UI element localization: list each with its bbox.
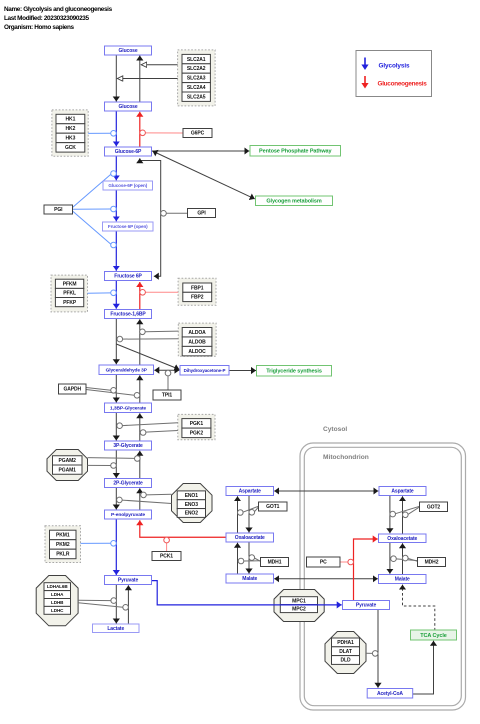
wire SLC2A catalysis lower [117, 78, 177, 80]
svg-text:Glucose: Glucose [118, 48, 137, 54]
svg-text:1,3BP-Glycerate: 1,3BP-Glycerate [110, 405, 146, 411]
svg-text:LDHC: LDHC [51, 608, 64, 613]
enzyme PGI [44, 205, 73, 214]
wire ENO catalysis up [146, 493, 171, 496]
wire cyto Aspartate to Oxaloacetate [248, 496, 250, 533]
wire mito Oxaloacetate to Aspartate [402, 496, 404, 534]
pathway node Triglyceride synthesis [257, 366, 332, 377]
wire GOT2 catalysis b [408, 507, 420, 514]
wire Malate shuttle [274, 578, 378, 580]
wire Acetyl-CoA to TCA Cycle [413, 641, 434, 694]
pathway node Pentose Phosphate Pathway [250, 146, 341, 157]
svg-text:Lactate: Lactate [107, 626, 124, 632]
anchor GOT2 anchor down [390, 511, 396, 517]
wire MDH1 catalysis a [244, 560, 261, 562]
svg-text:PC: PC [320, 560, 327, 566]
svg-text:PKM2: PKM2 [56, 542, 70, 548]
svg-text:PGAM2: PGAM2 [59, 458, 77, 464]
anchor ALDO anchor down [117, 336, 123, 342]
wire PCK1 catalysis [166, 543, 168, 552]
wire ENO catalysis down [122, 500, 171, 503]
node mitochondrial Aspartate [379, 487, 426, 496]
anchor PK anchor [111, 541, 117, 547]
svg-text:SLC2A1: SLC2A1 [187, 57, 206, 63]
group phosphoglycerate kinases [178, 414, 215, 439]
wire PGI catalysis 1 [73, 174, 111, 207]
anchor G6PC anchor [140, 130, 146, 136]
complex MPC complex [274, 590, 324, 622]
enzyme PCK1 [152, 552, 181, 561]
svg-text:TCA Cycle: TCA Cycle [420, 633, 446, 639]
group FBP phosphatases [178, 278, 216, 305]
svg-text:Dihydroxyacetone-P: Dihydroxyacetone-P [184, 368, 226, 373]
wire cyto Oxaloacetate to Malate [248, 542, 250, 574]
wire 1,3BP-Glycerate to 3P-Glycerate [115, 413, 117, 441]
svg-text:PGI: PGI [54, 207, 63, 213]
svg-text:ENO2: ENO2 [185, 511, 199, 517]
group phosphofructokinases [51, 275, 88, 312]
anchor GOT2 anchor up [403, 512, 409, 518]
enzyme PC [307, 557, 341, 567]
svg-text:GOT1: GOT1 [266, 504, 280, 510]
svg-text:PKM1: PKM1 [56, 533, 70, 539]
wire Fructose 6P open to Fructose 6P [115, 231, 117, 271]
node Fructose-1,6BP [105, 310, 152, 319]
svg-text:Fructose-1,6BP: Fructose-1,6BP [110, 312, 146, 318]
anchor GAPDH anchor up [134, 393, 140, 399]
svg-text:GCK: GCK [65, 145, 76, 151]
node Acetyl-CoA [367, 689, 413, 699]
anchor HK anchor [111, 131, 117, 137]
wire Glucose to Glucose-6P [115, 111, 117, 146]
node Dihydroxyacetone-P [180, 366, 229, 376]
anchor PDH anchor [372, 651, 378, 657]
wire PFK catalysis [88, 292, 111, 294]
anchor GPI anchor [161, 211, 167, 217]
svg-text:Oxaloacetate: Oxaloacetate [387, 536, 417, 542]
wire GPI shunt Glucose-6P to Fructose 6P [140, 158, 161, 276]
node 3P-Glycerate [105, 441, 152, 450]
wire Pyruvate to mitochondrial Pyruvate [151, 581, 341, 605]
svg-text:Glucose: Glucose [118, 104, 137, 110]
wire Dihydroxyacetone-P to Triglyceride synthesis [229, 370, 256, 372]
wire 2P-Glycerate to 3P-Glycerate [139, 451, 141, 488]
wire Glucose-6P open to Fructose 6P open [115, 190, 117, 221]
node mitochondrial Malate [379, 575, 427, 584]
wire ALDO catalysis up [145, 330, 178, 333]
wire TCA Cycle to Malate (dashed) [403, 585, 435, 631]
wire Glyceraldehyde 3P to Fructose-1,6BP [139, 319, 141, 364]
wire Fructose-1,6BP to Fructose 6P [139, 282, 141, 310]
svg-text:PFKM: PFKM [63, 282, 77, 288]
svg-text:Fructose 6P (open): Fructose 6P (open) [108, 224, 148, 229]
anchor PC anchor [348, 559, 354, 565]
svg-text:PFKP: PFKP [63, 300, 77, 306]
svg-text:PDHA1: PDHA1 [337, 640, 354, 646]
svg-text:LDHA: LDHA [51, 592, 64, 597]
svg-text:Glucose-6P (open): Glucose-6P (open) [108, 183, 147, 188]
svg-text:HK2: HK2 [66, 126, 76, 132]
anchor FBP anchor [140, 290, 146, 296]
svg-text:SLC2A4: SLC2A4 [187, 85, 206, 91]
svg-text:G6PC: G6PC [191, 131, 205, 137]
node Pyruvate [105, 576, 152, 585]
svg-text:SLC2A3: SLC2A3 [187, 76, 206, 82]
wire cyto Oxaloacetate to Aspartate [237, 496, 239, 533]
wire MDH2 catalysis b [408, 558, 418, 561]
svg-text:Glyceraldehyde 3P: Glyceraldehyde 3P [106, 367, 148, 373]
svg-text:DLAT: DLAT [339, 649, 352, 655]
svg-text:ALDOC: ALDOC [188, 349, 206, 355]
group pyruvate kinases [45, 526, 81, 563]
anchor PGK anchor up [140, 430, 146, 436]
node Glucose [105, 102, 152, 111]
wire Oxaloacetate to P-enolpyruvate [140, 520, 226, 537]
svg-text:PGAM1: PGAM1 [59, 467, 77, 473]
complex LDH complex [36, 576, 78, 626]
node 1,3BP-Glycerate [105, 403, 152, 413]
svg-text:Malate: Malate [395, 577, 410, 583]
complex ENO complex [172, 484, 213, 523]
wire 1,3BP-Glycerate to Glyceraldehyde 3P [139, 375, 141, 403]
wire SLC2A catalysis upper [141, 64, 177, 66]
anchor ALDO anchor up [140, 329, 146, 335]
anchor GAPDH anchor down [111, 388, 117, 394]
svg-text:Organism: Homo sapiens: Organism: Homo sapiens [4, 24, 75, 31]
anchor PGK anchor down [117, 423, 123, 429]
anchor PGAM anchor up [135, 456, 141, 462]
enzyme TPI1 [153, 390, 181, 400]
wire HK catalysis [88, 132, 111, 134]
wire 2P-Glycerate to P-enolpyruvate [115, 488, 117, 510]
anchor GOT1 anchor down [249, 510, 255, 516]
svg-text:Aspartate: Aspartate [391, 489, 413, 495]
wire PGI catalysis 2 [73, 208, 111, 210]
enzyme GOT2 [420, 502, 448, 512]
wire mito Pyruvate to Oxaloacetate [354, 539, 378, 601]
node Glucose-6P open [103, 181, 153, 190]
wire PGAM catalysis down [88, 464, 111, 466]
node Glucose-6P [105, 147, 152, 156]
svg-text:Malate: Malate [242, 576, 257, 582]
wire Glyceraldehyde 3P to 1,3BP-Glycerate [115, 375, 117, 403]
wire PGK catalysis down [122, 423, 178, 426]
svg-text:GPI: GPI [197, 211, 206, 217]
svg-text:Fructose 6P: Fructose 6P [114, 274, 142, 280]
wire P-enolpyruvate to Pyruvate [115, 519, 117, 575]
svg-text:PGK2: PGK2 [190, 431, 204, 437]
svg-text:DLD: DLD [341, 658, 351, 664]
wire Fructose-1,6BP to Glyceraldehyde 3P [115, 319, 117, 365]
enzyme GOT1 [259, 502, 288, 511]
anchor MDH2 anchor down [391, 556, 397, 562]
svg-text:FBP1: FBP1 [191, 285, 204, 291]
svg-text:MDH2: MDH2 [425, 560, 439, 566]
svg-text:TPI1: TPI1 [162, 393, 172, 399]
wire Pyruvate to Lactate [115, 585, 117, 624]
node Lactate [93, 624, 140, 633]
wire GOT2 catalysis a [395, 506, 419, 513]
node 2P-Glycerate [105, 479, 152, 488]
svg-text:ALDOA: ALDOA [188, 330, 206, 336]
node Glyceraldehyde 3P [99, 365, 154, 375]
svg-text:P-enolpyruvate: P-enolpyruvate [111, 512, 145, 518]
group SLC2A transporters [178, 50, 216, 106]
anchor ENO anchor down [117, 497, 123, 503]
node Fructose 6P open [103, 222, 154, 231]
wire Glucose transport out [139, 56, 141, 103]
svg-text:HK1: HK1 [66, 117, 76, 123]
svg-text:PGK1: PGK1 [190, 421, 204, 427]
wire G6PC catalysis [145, 132, 183, 134]
wire Fructose-1,6BP branch to Dihydroxyacetone-P [116, 344, 179, 369]
svg-text:SLC2A2: SLC2A2 [187, 66, 206, 72]
wire Glucose transport in [115, 55, 117, 102]
svg-text:HK3: HK3 [66, 136, 76, 142]
wire PGAM catalysis up [88, 457, 135, 460]
wire mito Pyruvate to Acetyl-CoA [377, 610, 379, 688]
wire Glucose-6P to Glycogen metabolism [152, 151, 254, 199]
svg-text:ALDOB: ALDOB [188, 339, 206, 345]
anchor ENO anchor up [141, 492, 147, 498]
wire Glucose-6P to Pentose Phosphate Pathway [151, 150, 249, 152]
svg-text:Aspartate: Aspartate [239, 489, 261, 495]
node cytosolic Aspartate [226, 487, 274, 496]
wire PK catalysis [81, 542, 111, 544]
svg-text:Name: Glycolysis and gluconeog: Name: Glycolysis and gluconeogenesis [4, 6, 113, 13]
wire ALDO catalysis down [123, 338, 179, 340]
wire Aspartate shuttle [274, 490, 378, 492]
node mitochondrial Oxaloacetate [379, 534, 427, 543]
svg-text:SLC2A5: SLC2A5 [187, 94, 206, 100]
compartment Mitochondrion membrane [300, 443, 466, 710]
node cytosolic Malate [226, 574, 274, 583]
wire FBP catalysis [145, 291, 178, 293]
anchor PGI anchor 1 [111, 171, 117, 177]
wire mito Malate to Oxaloacetate [402, 543, 404, 574]
svg-text:Glycolysis: Glycolysis [379, 63, 411, 70]
svg-text:FBP2: FBP2 [191, 295, 204, 301]
enzyme GAPDH [59, 384, 87, 394]
wire 3P-Glycerate to 2P-Glycerate [115, 450, 117, 478]
wire GAPDH catalysis down [86, 388, 111, 391]
node mitochondrial Pyruvate [343, 601, 390, 610]
wire MDH1 catalysis b [254, 558, 260, 561]
svg-text:Pentose Phosphate Pathway: Pentose Phosphate Pathway [259, 149, 332, 155]
wire PGK catalysis up [140, 431, 177, 433]
svg-text:3P-Glycerate: 3P-Glycerate [113, 443, 143, 449]
wire Glucose-6P to Glucose-6P open [115, 156, 117, 180]
anchor MDH2 anchor up [403, 555, 409, 561]
svg-text:MDH1: MDH1 [268, 560, 282, 566]
svg-text:LDHAL6B: LDHAL6B [47, 584, 69, 589]
wire GOT1 catalysis a [243, 506, 259, 512]
pathway node TCA Cycle [411, 630, 457, 640]
anchor PFK anchor [111, 290, 117, 296]
wire Glyceraldehyde 3P / Dihydroxyacetone-P isomerization [154, 369, 179, 371]
svg-text:Glycogen metabolism: Glycogen metabolism [266, 199, 321, 205]
svg-text:Acetyl-CoA: Acetyl-CoA [377, 691, 403, 697]
svg-text:Pyruvate: Pyruvate [118, 578, 139, 584]
svg-text:Triglyceride synthesis: Triglyceride synthesis [266, 369, 322, 375]
svg-text:Mitochondrion: Mitochondrion [323, 454, 369, 461]
anchor GOT1 anchor up [238, 510, 244, 516]
group hexokinases [52, 110, 88, 156]
wire 3P-Glycerate to 1,3BP-Glycerate [139, 413, 141, 450]
svg-text:ENO3: ENO3 [185, 502, 199, 508]
anchor MDH1 anchor down [249, 555, 255, 561]
svg-text:PKLR: PKLR [56, 552, 70, 558]
wire LDH catalysis down [78, 599, 111, 601]
wire mito Aspartate to Oxaloacetate [389, 496, 391, 534]
svg-text:2P-Glycerate: 2P-Glycerate [113, 481, 143, 487]
pathway node Glycogen metabolism [256, 196, 333, 206]
svg-text:PCK1: PCK1 [160, 554, 173, 560]
svg-text:LDHB: LDHB [51, 600, 64, 605]
anchor PCK1 anchor [164, 537, 170, 543]
svg-text:Last Modified: 20230323090235: Last Modified: 20230323090235 [4, 15, 89, 22]
wire PC catalysis [340, 561, 348, 563]
legend box [356, 51, 432, 97]
enzyme GPI [188, 209, 216, 218]
anchor LDH anchor down [111, 598, 117, 604]
svg-text:GAPDH: GAPDH [63, 387, 81, 393]
node Fructose 6P [105, 272, 152, 281]
node cytosolic Oxaloacetate [226, 533, 274, 542]
wire P-enolpyruvate to 2P-Glycerate [139, 488, 141, 510]
node P-enolpyruvate [105, 510, 152, 519]
wire PGI catalysis 3 [73, 211, 111, 244]
svg-text:PFKL: PFKL [63, 291, 76, 297]
wire GAPDH catalysis up [86, 390, 134, 396]
wire TPI1 catalysis [167, 376, 169, 390]
anchor PGAM anchor down [111, 463, 117, 469]
enzyme MDH1 [261, 558, 289, 567]
wire Glucose-6P to Glucose [139, 112, 141, 147]
svg-text:MPC2: MPC2 [292, 606, 306, 612]
wire PDH catalysis [366, 652, 373, 654]
anchor MDH1 anchor up [238, 558, 244, 564]
complex PDH complex [325, 632, 366, 674]
svg-text:GOT2: GOT2 [427, 504, 441, 510]
complex PGAM complex [47, 450, 88, 481]
anchor TPI1 anchor [165, 370, 171, 376]
anchor LDH anchor up [123, 605, 129, 611]
wire Lactate to Pyruvate [127, 585, 129, 624]
wire cyto Malate to Oxaloacetate [237, 543, 239, 574]
svg-text:Oxaloacetate: Oxaloacetate [235, 535, 265, 541]
svg-text:Cytosol: Cytosol [323, 426, 347, 433]
anchor PGI anchor 2 [111, 206, 117, 212]
anchor PGI anchor 3 [111, 242, 117, 248]
enzyme G6PC [183, 129, 212, 138]
wire GPI catalysis [166, 212, 187, 214]
svg-text:MPC1: MPC1 [292, 598, 306, 604]
wire mito Oxaloacetate to Malate [389, 543, 391, 574]
enzyme MDH2 [418, 558, 446, 567]
wire MDH2 catalysis a [396, 559, 417, 561]
wire Fructose 6P to Fructose-1,6BP [115, 281, 117, 309]
svg-text:Pyruvate: Pyruvate [356, 603, 377, 609]
group aldolases [178, 323, 216, 356]
svg-text:ENO1: ENO1 [185, 493, 199, 499]
svg-text:Gluconeogenesis: Gluconeogenesis [378, 81, 428, 88]
node Glucose top [105, 46, 152, 55]
svg-text:Glucose-6P: Glucose-6P [115, 149, 142, 155]
wire LDH catalysis up [78, 603, 123, 607]
wire GOT1 catalysis b [254, 507, 258, 512]
